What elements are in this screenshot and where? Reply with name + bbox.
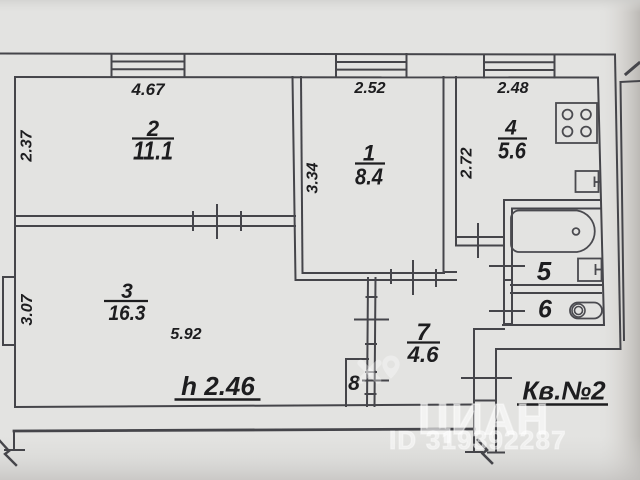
toilet — [570, 303, 602, 319]
svg-text:2.52: 2.52 — [353, 80, 385, 97]
svg-text:5: 5 — [537, 256, 552, 286]
wall room6 bottom — [503, 324, 602, 326]
wall right outer — [615, 55, 621, 350]
room label 3 — [104, 280, 148, 325]
wall bottom inner — [15, 405, 474, 408]
room label 7 — [406, 319, 440, 367]
door jamb ticks divider 2-3 — [193, 205, 241, 238]
partition door tick — [355, 319, 388, 321]
bathtub — [511, 211, 595, 253]
entrance door tick — [462, 377, 511, 379]
door tick room5 — [490, 265, 524, 267]
door jamb tick room1 left — [390, 270, 392, 283]
svg-text:2.48: 2.48 — [496, 80, 528, 97]
break bottom-left foot — [5, 449, 24, 451]
svg-text:16.3: 16.3 — [109, 302, 146, 325]
svg-text:4.67: 4.67 — [130, 80, 166, 99]
partition rungs — [366, 297, 377, 394]
door tick vestibule — [477, 224, 479, 257]
wall room1 bottom — [296, 273, 457, 280]
entrance wall rung — [474, 400, 496, 402]
svg-text:4: 4 — [504, 117, 517, 140]
wall kitchen left — [444, 77, 457, 272]
door tick room6 — [490, 310, 524, 312]
wall bottom outer — [14, 429, 474, 431]
svg-text:11.1: 11.1 — [133, 136, 173, 166]
room label 2 — [132, 116, 174, 166]
break bottom-right zigzag — [478, 440, 492, 463]
svg-text:ID 319392287: ID 319392287 — [389, 425, 567, 455]
wall divider rooms 2-3 — [15, 216, 295, 226]
svg-text:2.37: 2.37 — [19, 129, 36, 162]
entrance wall right vertical — [495, 349, 497, 451]
wall top inner — [15, 76, 598, 79]
corridor7 step wall — [474, 328, 504, 330]
svg-text:1: 1 — [363, 141, 375, 166]
door jamb tick room1 right — [435, 270, 437, 286]
doorway vestibule-kitchen — [456, 237, 504, 246]
stove — [556, 103, 597, 143]
neighbour wall top — [621, 81, 640, 82]
top edge shading — [0, 0, 640, 12]
wall kitchen-bath — [504, 200, 600, 209]
corridor7 right wall — [473, 329, 475, 451]
wall top outer — [0, 54, 615, 55]
door swing tick room1 — [412, 261, 414, 294]
neighbour corner tick — [626, 63, 639, 74]
kitchen sink — [576, 171, 600, 192]
svg-text:4.6: 4.6 — [406, 342, 439, 367]
svg-text:3: 3 — [121, 280, 133, 303]
fixtures — [511, 103, 602, 319]
svg-text:8.4: 8.4 — [355, 164, 383, 190]
room8 closet walls — [346, 359, 368, 406]
svg-text:3.34: 3.34 — [305, 162, 322, 193]
break bottom-left vertical — [13, 431, 15, 449]
room label 4 — [498, 117, 527, 164]
bottom edge shading — [0, 436, 640, 480]
wall bath left — [504, 200, 512, 324]
break bottom-right foot L — [466, 451, 482, 453]
room label 1 — [355, 141, 385, 190]
svg-text:8: 8 — [348, 372, 360, 395]
watermark cian logo — [356, 356, 400, 385]
svg-text:6: 6 — [538, 296, 553, 324]
wall room1 left — [293, 77, 303, 280]
wall rooms 5-6 — [511, 285, 601, 293]
break bottom-right foot R — [488, 452, 504, 454]
svg-text:5.6: 5.6 — [498, 138, 527, 164]
bath wall joint rung — [504, 279, 512, 281]
svg-text:h 2.46: h 2.46 — [181, 371, 255, 401]
wall bottom-right outer — [496, 348, 620, 350]
room8 pointer tick — [363, 380, 388, 382]
washbasin — [578, 259, 602, 282]
svg-text:2.72: 2.72 — [459, 147, 476, 179]
break bottom-left zigzag — [0, 441, 16, 465]
wall right inner — [598, 78, 604, 326]
ceiling height note h 2.46 — [175, 371, 261, 401]
window W1 room 2 — [112, 54, 185, 77]
window W4 room 3 left — [3, 277, 15, 345]
window W3 kitchen — [484, 55, 555, 78]
svg-text:5.92: 5.92 — [170, 326, 201, 343]
neighbour wall vertical — [621, 82, 625, 340]
right edge shading — [596, 0, 640, 480]
wall left inner — [14, 77, 16, 407]
apartment label Кв.№2 — [517, 376, 608, 406]
svg-text:3.07: 3.07 — [19, 293, 36, 325]
partition rooms 3-7 — [367, 278, 376, 406]
window W2 room 1 — [336, 54, 407, 77]
